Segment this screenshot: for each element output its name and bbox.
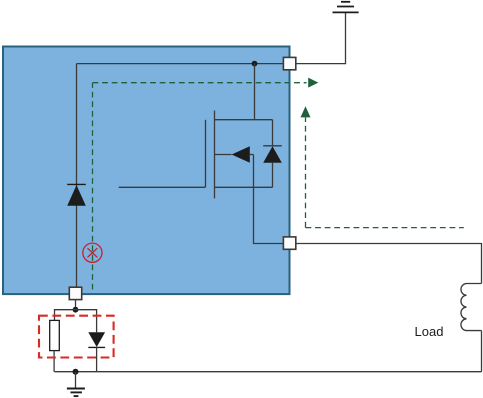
resistor R1 — [50, 320, 60, 350]
wire ground stem — [75, 372, 77, 389]
inductor L1 — [461, 284, 482, 331]
wire drain lead — [254, 64, 256, 120]
pin A (drain pad) — [283, 57, 295, 69]
wire inductor bottom — [481, 331, 483, 372]
snubber highlight box (red dashed) — [39, 316, 114, 358]
wire pin A to ground — [296, 12, 346, 63]
wire resistor bottom — [53, 351, 55, 372]
wire gate lead — [119, 186, 206, 188]
svg-text:Load: Load — [415, 324, 444, 339]
diode D1 — [67, 184, 86, 205]
wire pin C down — [75, 300, 77, 310]
wire snubber top branch — [55, 310, 97, 333]
node drain junction — [252, 61, 258, 67]
IC block U1 — [3, 47, 290, 295]
current path arrow (green, inside block) — [93, 78, 319, 290]
transistor Q1 (NMOS with body diode) — [206, 111, 282, 199]
wire top rail — [77, 63, 284, 65]
node snubber top junction — [73, 307, 79, 313]
ground (top, mirrored) — [333, 2, 359, 13]
diode D2 — [88, 332, 105, 347]
ground (bottom) — [67, 389, 85, 397]
current sense symbol X1 (red circle-X) — [83, 243, 102, 262]
wire pin B to load — [296, 244, 482, 284]
wire diode bottom — [96, 347, 98, 371]
pin B (source pad) — [283, 237, 295, 249]
node ground junction — [73, 369, 79, 375]
wire bottom rail — [55, 371, 482, 373]
wire source lead — [254, 155, 284, 244]
pin C (bottom pad) — [69, 287, 81, 299]
wire left rail — [76, 64, 78, 288]
current path arrow (green, load side) — [301, 106, 464, 227]
